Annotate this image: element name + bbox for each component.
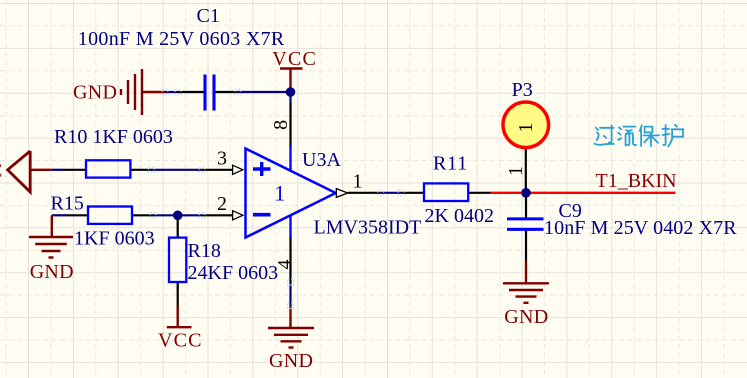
svg-text:100nF M 25V 0603 X7R: 100nF M 25V 0603 X7R (78, 28, 285, 50)
svg-text:1: 1 (353, 171, 363, 193)
svg-text:24KF 0603: 24KF 0603 (188, 262, 279, 284)
svg-text:LMV358IDT: LMV358IDT (314, 217, 422, 239)
svg-text:1: 1 (505, 166, 527, 176)
svg-text:R15: R15 (51, 192, 84, 214)
svg-text:VCC: VCC (272, 48, 317, 70)
svg-text:U3A: U3A (302, 149, 341, 171)
svg-text:3: 3 (217, 147, 227, 169)
svg-text:T1_BKIN: T1_BKIN (596, 170, 677, 192)
svg-text:P3: P3 (512, 79, 533, 101)
svg-text:1KF 0603: 1KF 0603 (74, 228, 155, 250)
svg-text:C1: C1 (197, 5, 220, 27)
svg-text:4: 4 (274, 260, 296, 270)
svg-text:1: 1 (515, 123, 537, 133)
svg-text:2: 2 (217, 193, 227, 215)
svg-text:R11: R11 (433, 153, 468, 175)
svg-text:GND: GND (269, 350, 313, 372)
svg-text:R10 1KF 0603: R10 1KF 0603 (54, 126, 173, 148)
svg-text:VCC: VCC (158, 330, 203, 352)
svg-text:C: C (0, 160, 2, 182)
svg-text:2K 0402: 2K 0402 (425, 205, 494, 227)
svg-text:GND: GND (30, 261, 74, 283)
svg-text:10nF M 25V 0402 X7R: 10nF M 25V 0402 X7R (544, 217, 737, 239)
svg-text:8: 8 (270, 120, 292, 130)
svg-text:GND: GND (73, 82, 117, 104)
svg-text:1: 1 (274, 181, 285, 206)
svg-text:R18: R18 (188, 240, 221, 262)
svg-text:GND: GND (504, 306, 548, 328)
